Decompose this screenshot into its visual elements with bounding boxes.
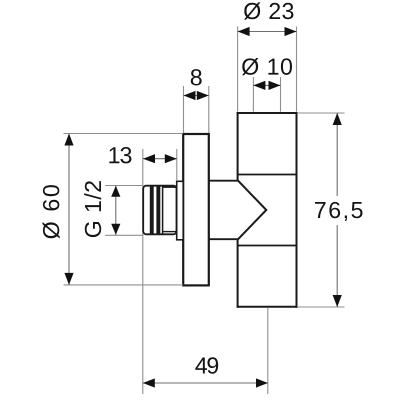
dimension 76,5 extension lines [298,113,345,307]
dimension Ø10 line and arrows [253,81,280,90]
neck between flange and body [209,181,238,240]
threaded stub G 1/2 [143,186,176,235]
dimension Ø23 extension lines [238,27,297,112]
chevron cone inside body [238,180,267,240]
dimension 13 line and arrows [143,154,177,163]
flange plate (rosette) [183,134,209,285]
dimension 8 extension lines [184,86,209,133]
dimension Ø10 extension lines [253,77,280,112]
dimension Ø10 label [242,58,292,75]
dimension G 1/2 label (rotated) [84,181,101,237]
dimension 8 label [191,69,202,85]
dimension G 1/2 line and arrows [111,186,120,235]
dimension Ø23 line and arrows [238,27,297,36]
valve body outline [237,112,298,308]
dimension Ø60 line and arrows [64,134,73,285]
dimension 13 extension line right [176,149,178,181]
dimension Ø60 label (rotated) [42,185,59,238]
dimension G 1/2 extension lines [105,186,143,236]
dimension 49 extension line right [267,308,269,394]
wire: shared extension line x=142.8 (13 dim + 49 dim) [142,149,144,394]
dimension 49 line and arrows [143,378,268,387]
dimension Ø23 label [244,2,293,19]
dimension 49 label [195,357,218,373]
dimension Ø60 extension lines [64,134,184,285]
valve body internal horizontal edges [238,175,297,246]
dimension 76,5 label [315,202,363,221]
collar behind flange [177,181,184,240]
dimension 13 label [109,147,131,163]
dimension 8 line and arrows [184,91,209,100]
dimension 76,5 line and arrows [333,113,342,307]
